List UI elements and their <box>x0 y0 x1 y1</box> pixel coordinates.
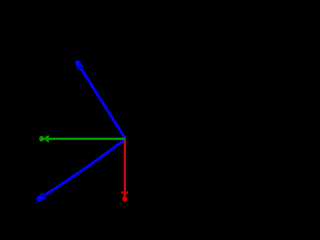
wire shaft of blue vector F1 (up-left) <box>81 68 126 139</box>
arrowhead of blue vector F1 (up-left) (tip blob + rear barbs) <box>74 59 84 70</box>
arrowhead of green vector F3 (left) (tip blob + rear barbs) <box>39 136 49 142</box>
wire shaft of blue vector F2 (down-left, slight bow) <box>43 139 125 196</box>
wire shaft of green vector F3 (left) <box>43 138 126 140</box>
arrowhead of red vector F4 (down) (tip blob + rear barbs) <box>122 192 128 202</box>
arrowhead of blue vector F2 (tip blob + rear barbs) <box>35 193 46 203</box>
wire shaft of red vector F4 (down) <box>124 139 126 198</box>
